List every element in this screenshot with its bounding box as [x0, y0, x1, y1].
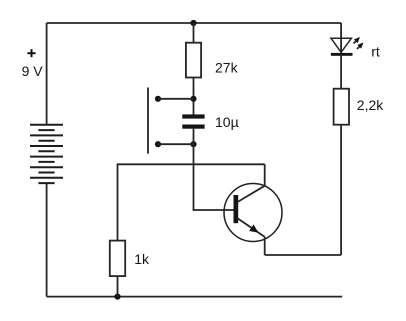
LED triangle [331, 38, 351, 52]
transistor collector stroke [238, 186, 265, 202]
transistor base bar [234, 195, 239, 223]
wire capacitor to base [194, 129, 234, 210]
wire battery positive lead [46, 23, 48, 125]
wire 27k top lead [193, 23, 195, 43]
capacitor 10µ [182, 114, 204, 128]
resistor 2,2k [334, 89, 349, 125]
wire emitter drop [264, 237, 266, 255]
contact dot lower [155, 141, 161, 147]
resistor 1k [110, 241, 125, 277]
wire right riser [340, 125, 342, 255]
junction dot lower contact node [190, 141, 196, 147]
wire bottom rail [47, 296, 343, 298]
wire 1k bottom lead [117, 276, 119, 297]
wire top rail [47, 22, 342, 24]
wire collector lead [264, 164, 266, 186]
svg-text:27k: 27k [215, 59, 239, 75]
LED light arrow 2 [357, 41, 365, 49]
transistor Q1 circle [224, 184, 282, 242]
wire upper contact [158, 98, 194, 100]
wire 1k top lead [117, 164, 119, 240]
svg-text:10µ: 10µ [215, 114, 239, 130]
transistor emitter stroke [238, 218, 265, 237]
wire battery negative lead [46, 183, 48, 297]
wire lower contact [158, 143, 194, 145]
wire horizontal to collector [117, 163, 265, 165]
battery 9V [30, 125, 63, 183]
transistor emitter arrowhead [249, 225, 261, 236]
wire LED anode to top rail [340, 23, 342, 53]
svg-text:2,2k: 2,2k [357, 97, 384, 113]
svg-text:rt: rt [371, 44, 380, 60]
label plus polarity [27, 49, 35, 57]
svg-text:1k: 1k [134, 251, 150, 267]
sensor electrode bar [147, 88, 149, 154]
wire 27k bottom lead [193, 78, 195, 115]
contact dot upper [155, 96, 161, 102]
LED cathode bar [331, 53, 353, 56]
LED light arrow 1 [354, 35, 362, 43]
junction dot top rail / R 27k [190, 20, 196, 26]
junction dot upper contact node [190, 96, 196, 102]
resistor 27k [186, 43, 201, 78]
svg-text:9 V: 9 V [22, 63, 44, 79]
wire emitter to right branch [265, 254, 341, 256]
wire LED cathode to resistor [340, 56, 342, 89]
junction dot bottom rail / R 1k [114, 294, 120, 300]
